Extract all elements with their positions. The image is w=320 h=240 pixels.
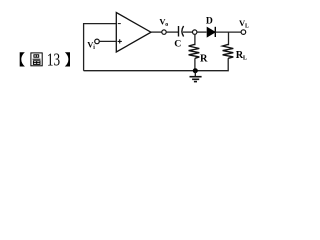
node Vo terminal [162, 30, 166, 34]
wire: diode to VL [215, 31, 241, 33]
svg-text:R: R [200, 53, 208, 64]
wire: bottom ground rail [84, 58, 229, 70]
wire: op-amp output to Vo [151, 31, 162, 33]
wire: minus input feedback to ground rail [84, 24, 117, 71]
wire: Vo to capacitor [166, 31, 178, 33]
wire: node down to resistor R [194, 34, 196, 45]
caption bracket right [65, 52, 70, 66]
svg-text:L: L [245, 23, 249, 29]
op-amp minus sign [118, 23, 121, 25]
capacitor C [178, 26, 180, 37]
wire: node to diode [197, 31, 207, 33]
wire: capacitor to node [183, 31, 192, 33]
svg-text:o: o [165, 22, 168, 28]
wire: resistor R to rail [194, 58, 196, 70]
resistor RL [223, 44, 234, 58]
ground [194, 71, 196, 77]
diode D [207, 28, 215, 37]
op-amp plus sign [118, 39, 122, 43]
wire: top wire down to resistor RL [228, 32, 230, 45]
node Vi terminal [95, 39, 100, 44]
caption bracket left [20, 52, 25, 66]
svg-text:D: D [206, 16, 213, 27]
svg-text:L: L [243, 55, 247, 62]
node VL terminal [241, 30, 246, 35]
caption glyph 圖 [31, 53, 42, 66]
svg-text:C: C [174, 38, 181, 49]
svg-text:13: 13 [47, 50, 60, 70]
wire: Vi to plus input [99, 40, 116, 42]
junction dot [193, 68, 198, 73]
resistor R [189, 44, 200, 58]
op-amp U1 [116, 13, 151, 53]
node junction circle [193, 30, 197, 34]
